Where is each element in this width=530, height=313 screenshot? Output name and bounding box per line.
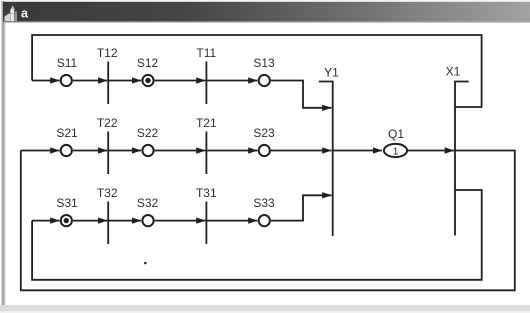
transition T12 [97,46,118,104]
wire Q1 to X1 [408,150,454,152]
svg-text:T21: T21 [196,116,217,130]
place S11 [57,56,78,86]
wire T32 to S32 [108,220,141,222]
svg-text:S23: S23 [253,126,275,140]
stray mark (small dot) [144,262,147,265]
wire T21 to S23 [206,150,257,152]
svg-text:S33: S33 [253,196,275,210]
svg-text:S31: S31 [56,196,78,210]
wire S31 to T32 [73,220,107,222]
wire S11 to T12 [73,80,107,82]
wire into S31 [32,220,59,222]
wire X1-to-S21 outer bottom return loop [21,151,515,291]
wire S23 to Y1 [271,150,332,152]
wire into S11 [32,80,59,82]
place S22 [137,126,159,156]
place S23 [253,126,275,156]
svg-text:T12: T12 [97,46,118,60]
wire S32 to T31 [155,220,206,222]
place Q1 (oval, value 1) [384,127,407,157]
place S31 (marked) [56,196,78,226]
title bar [3,2,530,22]
wire T12 to S12 [108,80,141,82]
place S13 [253,56,275,86]
svg-text:Y1: Y1 [324,66,339,80]
svg-text:T31: T31 [196,186,217,200]
svg-text:a: a [21,7,29,21]
wire Y1 to Q1 [333,150,382,152]
svg-text:1: 1 [393,145,399,157]
wire S21 to T22 [73,150,107,152]
transition T11 [196,46,216,104]
place S33 [253,196,275,226]
bar Y1 [319,66,339,237]
svg-text:S12: S12 [137,56,159,70]
wire S33 to Y1 (step up) [271,195,332,220]
wire S13 to Y1 (step down) [271,81,332,108]
wire X1-to-S11 top return loop [32,35,482,107]
wire S12 to T11 [155,80,206,82]
window icon [5,5,18,21]
wire X1-to-S31 inner bottom return loop [32,190,482,280]
svg-text:Q1: Q1 [388,127,404,141]
wire S22 to T21 [155,150,206,152]
svg-text:T32: T32 [97,186,118,200]
wire T22 to S22 [108,150,141,152]
transition T22 [97,116,118,174]
svg-text:T22: T22 [97,116,118,130]
wire into S21 [21,150,60,152]
place S32 [137,196,159,226]
svg-text:X1: X1 [446,65,461,79]
svg-text:S32: S32 [137,196,159,210]
wire T31 to S33 [206,220,257,222]
transition T31 [196,186,217,244]
place S21 [56,126,78,156]
transition T32 [97,186,118,244]
place S12 (marked) [137,56,159,86]
svg-text:S13: S13 [253,56,275,70]
svg-text:S22: S22 [137,126,159,140]
svg-text:S21: S21 [56,126,78,140]
wire T11 to S13 [206,80,257,82]
bar X1 [446,65,469,236]
svg-text:T11: T11 [196,46,216,60]
svg-text:S11: S11 [57,56,78,70]
transition T21 [196,116,217,174]
